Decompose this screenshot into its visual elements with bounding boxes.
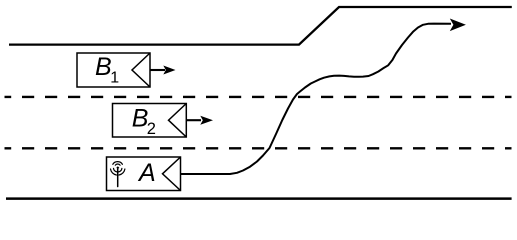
svg-text:A: A bbox=[137, 159, 156, 187]
svg-text:1: 1 bbox=[110, 69, 119, 86]
svg-text:B: B bbox=[95, 53, 112, 81]
svg-text:2: 2 bbox=[147, 120, 156, 138]
